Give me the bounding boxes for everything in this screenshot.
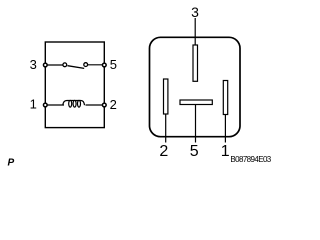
wire: coil to terminal 2 [86, 104, 105, 106]
leader line pin 2 [165, 114, 167, 143]
svg-text:P: P [8, 157, 15, 168]
leader line pin 1 [224, 115, 226, 143]
svg-text:1: 1 [221, 143, 230, 160]
svg-text:2: 2 [110, 97, 117, 112]
wire: terminal 3 to switch [45, 64, 63, 66]
switch S contact right [84, 63, 88, 67]
pin 2 slot [164, 79, 168, 114]
leader line pin 5 [195, 105, 197, 143]
pin 5 slot [180, 100, 212, 105]
svg-text:3: 3 [191, 4, 199, 20]
switch S contact left [63, 63, 67, 67]
leader line pin 3 [194, 18, 196, 45]
relay internal circuit box [45, 42, 104, 128]
wire: terminal 1 to coil [45, 104, 64, 106]
svg-text:2: 2 [159, 143, 168, 160]
terminal 2 circle [102, 103, 106, 107]
svg-text:B087894E03: B087894E03 [230, 155, 271, 164]
svg-text:3: 3 [30, 57, 37, 72]
terminal 5 circle [102, 63, 106, 67]
svg-text:5: 5 [110, 57, 117, 72]
svg-text:5: 5 [190, 143, 199, 160]
pin 1 slot [223, 81, 227, 115]
switch S blade [68, 66, 85, 69]
relay coil [63, 100, 85, 107]
svg-text:1: 1 [30, 97, 37, 112]
terminal 1 circle [43, 103, 47, 107]
wire: switch to terminal 5 [88, 64, 104, 66]
terminal 3 circle [43, 63, 47, 67]
pin 3 slot [193, 45, 198, 81]
relay connector body [150, 37, 241, 136]
